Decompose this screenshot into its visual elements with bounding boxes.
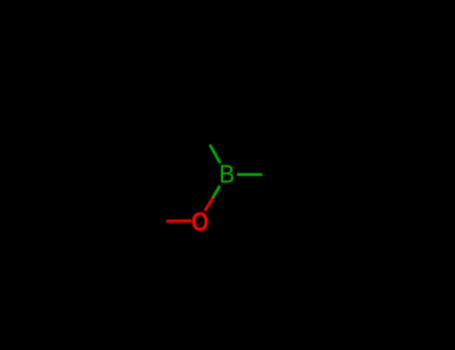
bond B-O boron half (green) bbox=[213, 186, 220, 198]
bond O-C3 carbon half (black, invisible) bbox=[134, 220, 167, 223]
bond B-O oxygen half (red) bbox=[205, 198, 213, 211]
bond C1-B boron half (green) bbox=[210, 145, 220, 163]
bond C1-B carbon half (black, invisible on black bg) bbox=[194, 116, 211, 145]
svg-text:B: B bbox=[219, 161, 235, 189]
bond B-C2 boron half (green) bbox=[237, 173, 262, 176]
svg-text:O: O bbox=[191, 208, 209, 237]
bond B-C2 carbon half (black, invisible) bbox=[262, 173, 298, 176]
bond O-C3 oxygen half (red) bbox=[167, 219, 192, 223]
